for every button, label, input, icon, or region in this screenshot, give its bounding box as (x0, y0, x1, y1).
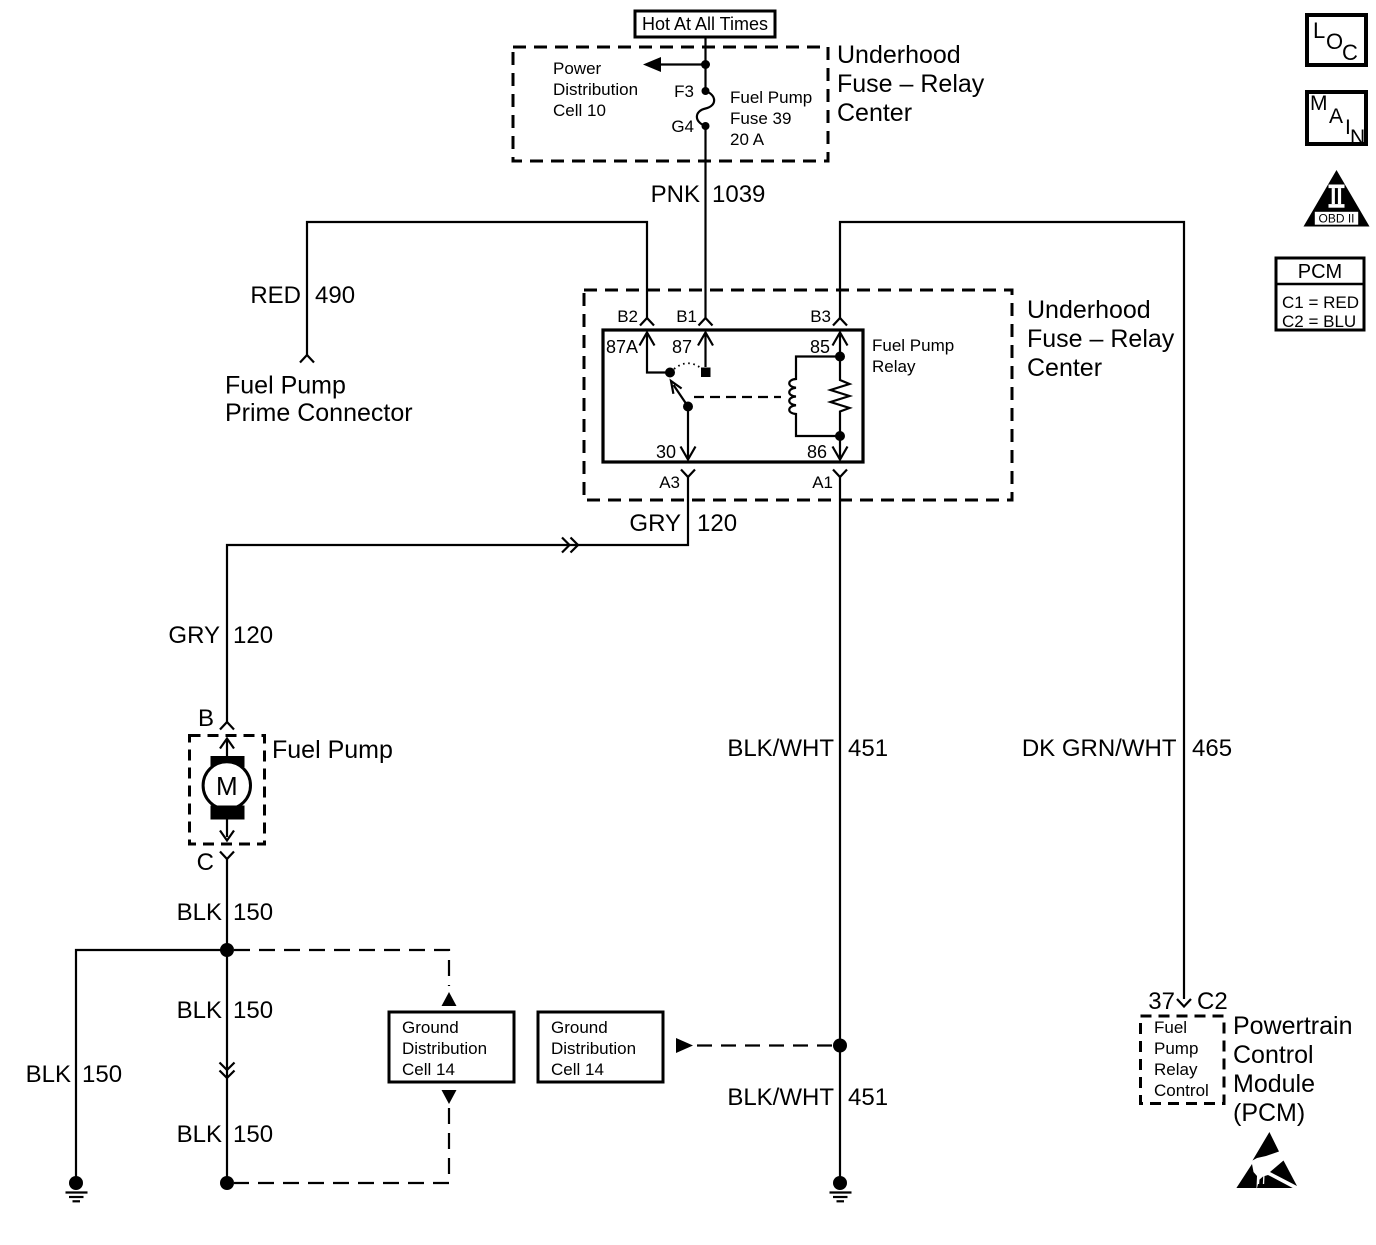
wire from Hot At All Times into fuse block (704, 38, 706, 91)
icon OBD II triangle (1304, 170, 1370, 227)
svg-text:C1 = RED: C1 = RED (1282, 293, 1359, 312)
svg-text:Underhood: Underhood (1027, 296, 1151, 324)
svg-text:Fuse – Relay: Fuse – Relay (1027, 325, 1175, 353)
label Fuel Pump Prime Connector (225, 372, 413, 428)
node splice S3 (833, 1039, 847, 1053)
svg-text:465: 465 (1192, 735, 1232, 762)
svg-text:BLK: BLK (177, 899, 222, 926)
svg-text:Fuse 39: Fuse 39 (730, 109, 791, 128)
svg-text:30: 30 (656, 442, 676, 462)
relay pin 30 arrow (681, 407, 696, 460)
label Underhood Fuse - Relay Center (relay block) (1027, 296, 1175, 382)
label PNK 1039 (651, 181, 766, 208)
icon ESD warning (static sensitive) (1236, 1132, 1297, 1188)
svg-text:Power: Power (553, 59, 602, 78)
connector A3 (681, 470, 695, 478)
svg-text:Control: Control (1154, 1081, 1209, 1100)
svg-text:O: O (1326, 29, 1343, 54)
svg-text:87A: 87A (606, 337, 638, 357)
node: fuse feed junction (701, 60, 710, 69)
label BLK 150 (middle) (177, 997, 273, 1024)
svg-text:451: 451 (848, 735, 888, 762)
svg-text:(PCM): (PCM) (1233, 1099, 1305, 1127)
relay switch blade (671, 381, 688, 407)
Underhood Fuse-Relay Center dashed box (relay block) (584, 290, 1012, 500)
svg-text:DK GRN/WHT: DK GRN/WHT (1022, 735, 1177, 762)
label DK GRN/WHT 465 (1022, 735, 1232, 762)
label Underhood Fuse - Relay Center (top) (837, 41, 985, 127)
relay: Fuel Pump Relay box (603, 330, 863, 462)
svg-text:86: 86 (807, 442, 827, 462)
svg-text:Prime Connector: Prime Connector (225, 399, 413, 427)
svg-text:BLK/WHT: BLK/WHT (727, 735, 834, 762)
svg-text:Distribution: Distribution (551, 1039, 636, 1058)
dashed link from Ground Distribution (right) to splice S3 (676, 1038, 832, 1053)
svg-text:PNK: PNK (651, 181, 700, 208)
label GRY 120 (upper) (629, 510, 737, 537)
relay pin 85 arrow (833, 333, 848, 357)
node F3 (702, 87, 710, 95)
svg-text:B: B (198, 705, 214, 732)
node coil top (835, 352, 845, 362)
svg-text:A1: A1 (812, 473, 833, 492)
icon MAIN (1307, 92, 1366, 149)
PCM connector legend box (1276, 258, 1364, 331)
connector: Fuel Pump Prime Connector terminal (300, 355, 314, 363)
dashed link from Ground Distribution (bottom) to splice S2 (234, 1090, 457, 1183)
svg-text:Module: Module (1233, 1070, 1315, 1098)
connector pin 37 C2 (PCM) (1177, 999, 1191, 1007)
dotted travel arc (674, 363, 702, 369)
svg-text:GRY: GRY (168, 622, 220, 649)
svg-text:GRY: GRY (629, 510, 681, 537)
label GRY 120 (lower) (168, 622, 273, 649)
svg-text:1039: 1039 (712, 181, 765, 208)
PCM: Fuel Pump Relay Control dashed box (1141, 1016, 1225, 1104)
svg-text:85: 85 (810, 337, 830, 357)
relay contact 87A node (665, 368, 675, 378)
label Powertrain Control Module (PCM) (1233, 1012, 1353, 1127)
connector B3 (833, 318, 847, 326)
splice marker down chevrons on BLK wire (220, 1063, 235, 1079)
svg-text:BLK/WHT: BLK/WHT (727, 1084, 834, 1111)
label BLK/WHT 451 (upper) (727, 735, 888, 762)
svg-text:PCM: PCM (1298, 261, 1342, 283)
Ground Distribution Cell 14 box (right) (538, 1012, 663, 1082)
wire BLK 150 (pump to grounds) (226, 859, 228, 1183)
svg-text:Hot At All Times: Hot At All Times (642, 14, 768, 34)
Hot At All Times box (635, 11, 775, 37)
dashed link from splice S1 to Ground Distribution (top) (234, 950, 457, 1006)
svg-text:C2: C2 (1197, 988, 1228, 1015)
svg-text:150: 150 (233, 997, 273, 1024)
label BLK 150 (lower) (177, 1121, 273, 1148)
label Fuel Pump Relay (872, 336, 954, 376)
label BLK 150 (left) (26, 1061, 122, 1088)
svg-text:G4: G4 (671, 117, 694, 136)
ground G103 (left) (66, 1176, 88, 1201)
svg-text:150: 150 (233, 899, 273, 926)
svg-text:150: 150 (82, 1061, 122, 1088)
wire GRY 120 (227, 477, 688, 722)
connector B2 (640, 318, 654, 326)
wire DK GRN/WHT 465 (840, 222, 1184, 999)
connector B1 (699, 318, 713, 326)
svg-text:C: C (197, 849, 214, 876)
svg-text:Center: Center (837, 99, 912, 127)
svg-text:Relay: Relay (1154, 1060, 1198, 1079)
svg-text:Underhood: Underhood (837, 41, 961, 69)
svg-text:451: 451 (848, 1084, 888, 1111)
ground G104 (right) (830, 1176, 852, 1201)
svg-text:Fuel Pump: Fuel Pump (872, 336, 954, 355)
svg-text:120: 120 (697, 510, 737, 537)
svg-text:B2: B2 (617, 307, 638, 326)
svg-text:Cell 14: Cell 14 (402, 1060, 455, 1079)
relay pin 87A arrow (640, 333, 667, 373)
icon LOC (1307, 15, 1366, 65)
svg-text:490: 490 (315, 282, 355, 309)
svg-text:OBD II: OBD II (1318, 212, 1354, 226)
wire RED 490 (307, 222, 647, 355)
svg-text:Powertrain: Powertrain (1233, 1012, 1353, 1040)
label Fuel Pump Fuse 39 20 A (730, 88, 812, 149)
svg-text:B1: B1 (676, 307, 697, 326)
fuse F39 20A (697, 91, 714, 126)
relay coil L1 (789, 357, 840, 437)
svg-text:Fuel Pump: Fuel Pump (730, 88, 812, 107)
relay common node (30) (683, 402, 693, 412)
node G4 (702, 122, 710, 130)
label RED 490 (250, 282, 355, 309)
svg-text:Ground: Ground (551, 1018, 608, 1037)
wire BLK 150 left branch (76, 950, 227, 1183)
svg-text:L: L (1313, 18, 1325, 43)
svg-text:120: 120 (233, 622, 273, 649)
label Power Distribution Cell 10 (553, 59, 638, 120)
svg-text:C: C (1342, 40, 1358, 65)
Ground Distribution Cell 14 box (left) (389, 1012, 514, 1082)
wire BLK/WHT 451 (839, 477, 841, 1183)
svg-text:Distribution: Distribution (553, 80, 638, 99)
svg-text:BLK: BLK (177, 997, 222, 1024)
connector C (220, 852, 234, 860)
svg-text:Pump: Pump (1154, 1039, 1198, 1058)
svg-text:B3: B3 (810, 307, 831, 326)
svg-text:RED: RED (250, 282, 301, 309)
relay pin 86 arrow (833, 436, 848, 460)
connector A1 (833, 470, 847, 478)
relay contact 87 node (square) (701, 368, 711, 378)
node splice S2 (220, 1176, 234, 1190)
svg-text:Fuse – Relay: Fuse – Relay (837, 70, 985, 98)
svg-text:20 A: 20 A (730, 130, 765, 149)
node splice S1 (220, 943, 234, 957)
Underhood Fuse-Relay Center dashed box (fuse block) (513, 47, 828, 161)
svg-text:Cell 10: Cell 10 (553, 101, 606, 120)
label BLK/WHT 451 (lower) (727, 1084, 888, 1111)
svg-text:A3: A3 (659, 473, 680, 492)
svg-text:Ground: Ground (402, 1018, 459, 1037)
relay pin 87 arrow (698, 333, 713, 368)
svg-text:87: 87 (672, 337, 692, 357)
svg-text:Cell 14: Cell 14 (551, 1060, 604, 1079)
svg-text:M: M (1310, 92, 1328, 115)
svg-text:37: 37 (1148, 988, 1175, 1015)
splice marker >> on GRY wire (562, 538, 578, 553)
svg-text:Relay: Relay (872, 357, 916, 376)
svg-text:N: N (1350, 126, 1365, 149)
svg-text:C2 = BLU: C2 = BLU (1282, 312, 1356, 331)
svg-text:F3: F3 (674, 82, 694, 101)
svg-text:Center: Center (1027, 354, 1102, 382)
fuel pump motor M1 (203, 739, 250, 841)
wire PNK 1039 (704, 126, 706, 318)
svg-text:150: 150 (233, 1121, 273, 1148)
svg-text:Fuel Pump: Fuel Pump (272, 736, 393, 764)
svg-text:Control: Control (1233, 1041, 1314, 1069)
label BLK 150 (upper) (177, 899, 273, 926)
node coil bottom (835, 431, 845, 441)
dashed actuation link (694, 396, 781, 398)
wire arrow to Power Distribution Cell 10 (643, 57, 706, 72)
svg-text:M: M (216, 771, 238, 801)
svg-text:A: A (1329, 105, 1343, 128)
svg-text:Fuel: Fuel (1154, 1018, 1187, 1037)
connector B (fuel pump) (220, 722, 234, 730)
Fuel Pump dashed box (190, 736, 265, 845)
svg-text:BLK: BLK (177, 1121, 222, 1148)
svg-text:Fuel Pump: Fuel Pump (225, 372, 346, 400)
relay resistor R1 (831, 357, 850, 437)
svg-text:BLK: BLK (26, 1061, 71, 1088)
svg-text:Distribution: Distribution (402, 1039, 487, 1058)
